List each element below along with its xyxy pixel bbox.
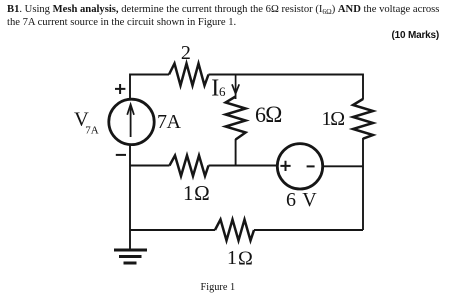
wire bottom rail left segment (130, 229, 215, 231)
wire 6V source to right rail (323, 165, 364, 167)
wire left rail lower (current source to bottom rail) (129, 146, 131, 231)
resistor 1Ω (right, vertical) (322, 99, 374, 139)
svg-text:V: V (302, 189, 317, 211)
wire middle rail left segment (130, 165, 170, 167)
wire right rail lower (362, 138, 364, 230)
svg-text:1: 1 (183, 181, 194, 205)
wire left rail upper (corner to current source) (129, 74, 131, 99)
svg-text:Ω: Ω (194, 181, 210, 205)
svg-text:Ω: Ω (265, 102, 282, 127)
svg-text:7A: 7A (85, 125, 99, 137)
label 6 V (286, 189, 317, 211)
resistor 1Ω (bottom) (215, 220, 254, 270)
resistor 2 (top) (169, 42, 209, 86)
svg-text:6: 6 (219, 84, 226, 99)
wire 6Ω branch lower (235, 139, 237, 166)
wire top rail right segment (209, 74, 364, 76)
voltage source 6V (277, 144, 322, 189)
resistor 6Ω (vertical) (226, 97, 283, 140)
ground (114, 230, 147, 263)
svg-text:1: 1 (227, 247, 237, 269)
svg-text:Ω: Ω (330, 108, 345, 130)
svg-text:2: 2 (181, 42, 191, 64)
label V7A (74, 109, 99, 137)
resistor 1Ω (middle) (170, 156, 210, 206)
svg-text:6: 6 (286, 189, 296, 211)
minus sign of current source (116, 154, 126, 156)
wire middle rail to 6V source (209, 165, 278, 167)
caption Figure 1 (201, 282, 236, 293)
wire bottom rail right segment (254, 229, 363, 231)
wire top rail left segment (130, 74, 169, 76)
label I6 (211, 75, 226, 101)
arrow I6 (current direction) (232, 75, 239, 100)
plus sign of current source (115, 84, 125, 94)
wire right rail upper (362, 74, 364, 100)
label 7A (157, 111, 182, 133)
svg-text:Figure 1: Figure 1 (201, 282, 236, 293)
svg-text:Ω: Ω (238, 247, 253, 269)
current source 7A (109, 99, 154, 144)
svg-text:7A: 7A (157, 111, 182, 133)
